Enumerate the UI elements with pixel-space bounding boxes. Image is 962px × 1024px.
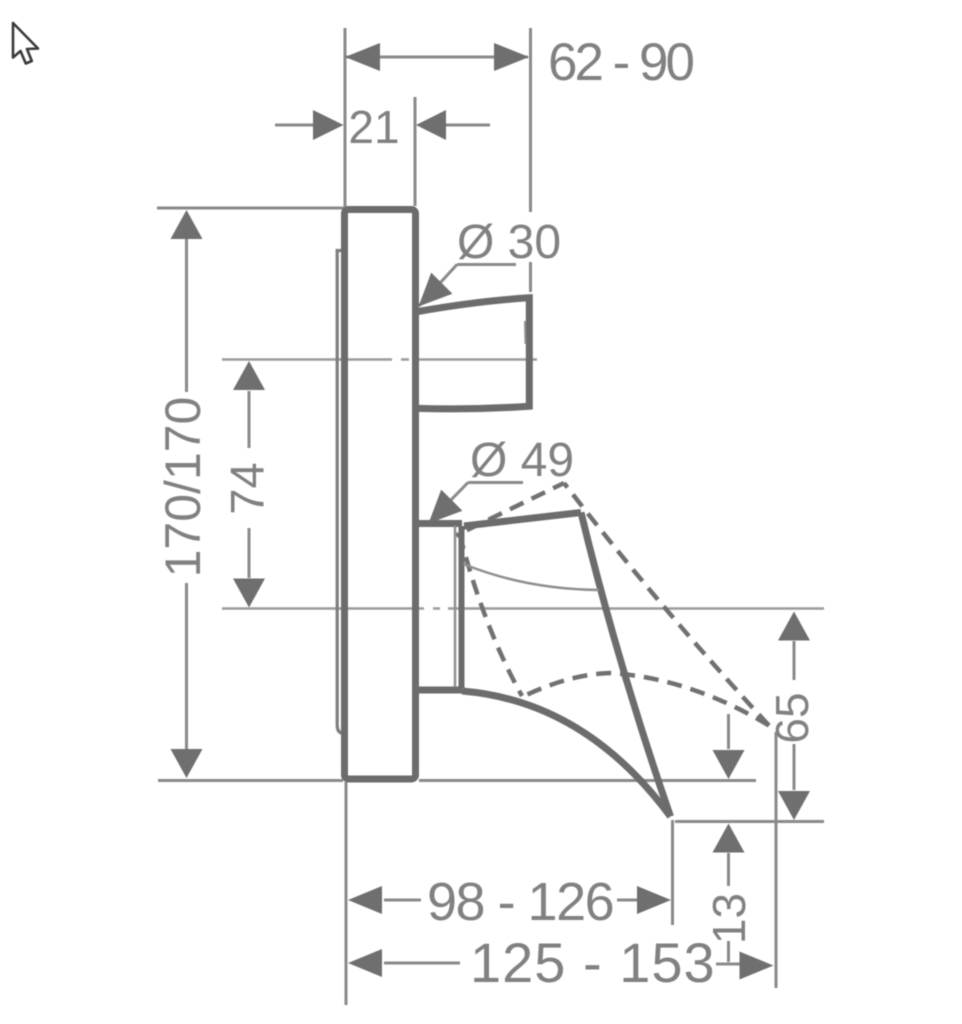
- svg-text:74: 74: [221, 462, 274, 514]
- svg-text:Ø 30: Ø 30: [457, 216, 561, 269]
- svg-text:98 - 126: 98 - 126: [427, 872, 613, 932]
- svg-text:21: 21: [348, 101, 399, 153]
- svg-text:65: 65: [766, 692, 818, 743]
- svg-text:125 - 153: 125 - 153: [470, 931, 716, 994]
- svg-text:62 - 90: 62 - 90: [548, 33, 694, 92]
- svg-text:Ø 49: Ø 49: [470, 434, 574, 487]
- svg-text:170/170: 170/170: [155, 397, 211, 578]
